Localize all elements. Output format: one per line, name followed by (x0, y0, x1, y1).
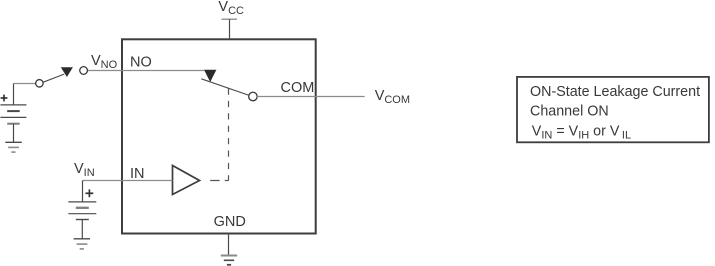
terminal circle at VNO node (80, 67, 88, 75)
svg-text:IN: IN (130, 166, 145, 182)
ground below B1 (5, 141, 22, 143)
ground below B2 (74, 238, 90, 240)
wire battery B1 to switch (13, 84, 15, 105)
battery B1 (VNO source) (0, 104, 26, 106)
dashed control link vertical (228, 89, 230, 181)
terminal circle COM (249, 92, 258, 101)
plus label for battery B1 (1, 97, 8, 99)
VCC terminal bar (222, 18, 238, 20)
buffer driver U2 (173, 166, 200, 195)
DUT box U1 (122, 39, 316, 233)
wire NO (87, 70, 204, 72)
svg-text:COM: COM (281, 80, 315, 96)
svg-text:ON-State Leakage Current: ON-State Leakage Current (530, 84, 700, 100)
external switch contact arrow (61, 67, 73, 77)
svg-text:NO: NO (130, 54, 152, 70)
wire battery B2 to ground (81, 220, 83, 239)
wire COM (257, 96, 365, 98)
svg-text:VNO: VNO (91, 53, 118, 71)
switch S1 contact arrow (inside DUT) (204, 70, 216, 82)
svg-text:Channel ON: Channel ON (530, 104, 609, 120)
switch S1 arm (201, 79, 248, 95)
external switch pole circle (36, 80, 44, 88)
wire IN (83, 180, 173, 182)
svg-text:VIN: VIN (74, 161, 95, 179)
svg-text:VCOM: VCOM (375, 88, 410, 106)
external switch arm (43, 74, 64, 82)
plus label for battery B2 (86, 192, 94, 194)
battery B2 (VIN source) (68, 201, 96, 203)
wire VIN battery lead (82, 181, 84, 202)
wire battery B1 to ground (13, 124, 15, 143)
note box (517, 77, 709, 142)
svg-text:GND: GND (214, 214, 246, 230)
svg-text:VIN = VIH or VIL: VIN = VIH or VIL (532, 123, 631, 141)
wire GND lead (228, 234, 230, 256)
wire VCC lead (229, 19, 231, 39)
svg-text:VCC: VCC (218, 0, 244, 17)
ground at GND pin (221, 255, 237, 257)
dashed control link horizontal (210, 180, 228, 182)
